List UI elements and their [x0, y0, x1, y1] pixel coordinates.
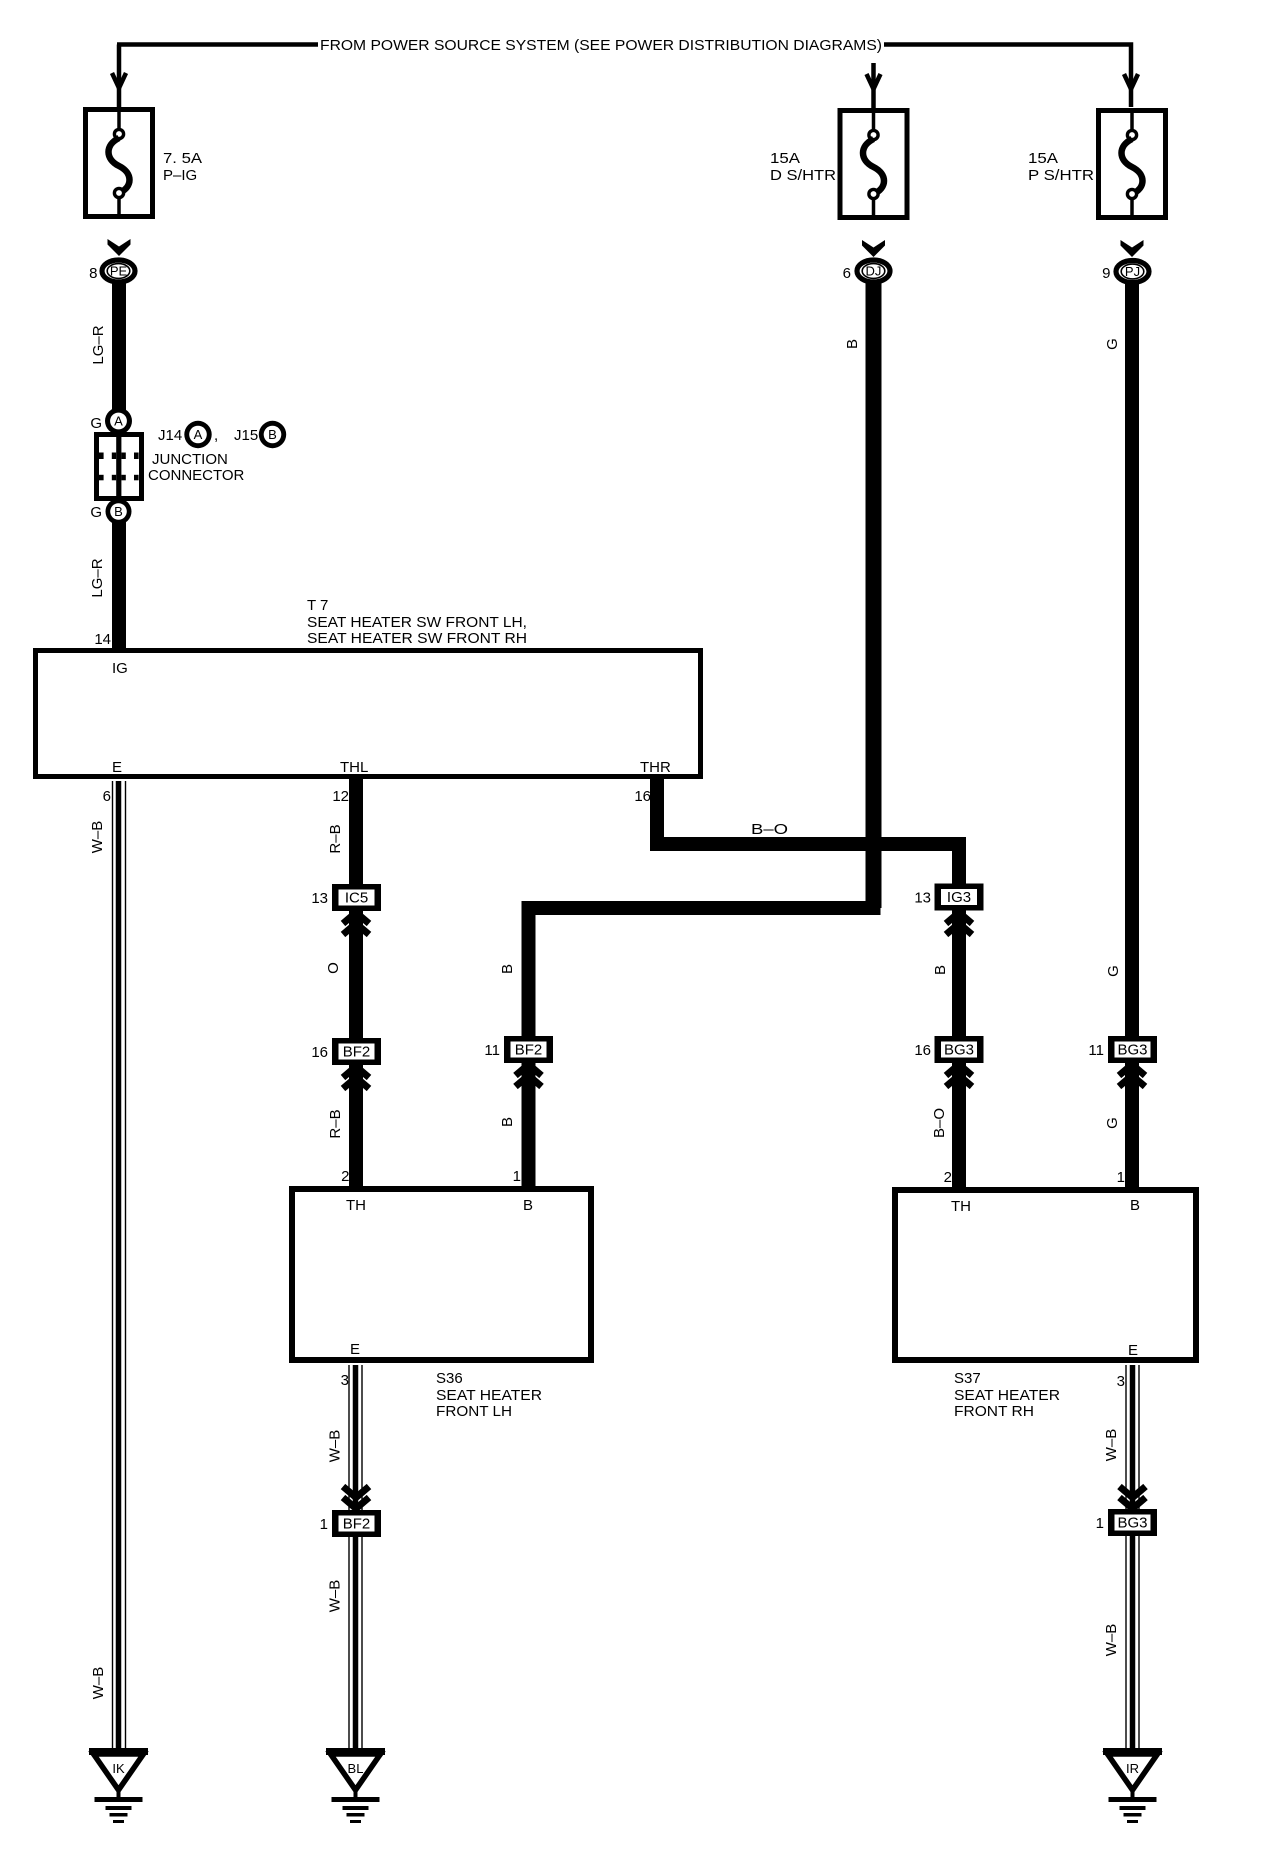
svg-text:BG3: BG3 — [1117, 1042, 1147, 1059]
arrow into fuse P S/HTR — [1124, 74, 1138, 89]
svg-text:W–B: W–B — [327, 1430, 344, 1463]
svg-text:PJ: PJ — [1125, 264, 1140, 279]
junction arrow below BG3 11 — [1119, 1065, 1145, 1087]
node JUNCTION CONNECTOR label — [148, 451, 245, 484]
svg-text:BG3: BG3 — [1117, 1515, 1147, 1532]
wire: top power feed right segment with corner at x1131 — [884, 45, 1131, 108]
node J15 B — [214, 421, 286, 448]
svg-text:R–B: R–B — [327, 1109, 344, 1138]
svg-text:6: 6 — [843, 265, 851, 282]
connector 13 IG3 — [914, 884, 983, 911]
wire LG-R from junction connector B to T7 pin 14 — [112, 522, 126, 650]
junction arrow below BF2 16 — [343, 1067, 369, 1089]
svg-text:FRONT RH: FRONT RH — [954, 1403, 1034, 1420]
arrow into fuse D S/HTR — [867, 74, 881, 89]
svg-text:1: 1 — [513, 1168, 521, 1185]
svg-text:W–B: W–B — [327, 1580, 344, 1613]
svg-text:9: 9 — [1102, 265, 1110, 282]
connector 6 DJ — [843, 260, 890, 282]
svg-text:FRONT LH: FRONT LH — [436, 1403, 512, 1420]
wire from DJ corner to BF2 11 — [522, 901, 881, 915]
wire: top power feed left segment with corner at x119 — [117, 45, 318, 108]
wire B from IG3 to BG3 16 — [952, 909, 966, 1038]
svg-text:E: E — [350, 1341, 360, 1358]
svg-text:16: 16 — [311, 1044, 328, 1061]
svg-text:1: 1 — [1096, 1515, 1104, 1532]
svg-text:SEAT HEATER: SEAT HEATER — [436, 1387, 542, 1404]
fuse 15A P S/HTR — [1099, 108, 1166, 220]
wire R-B from BF2 16 to S36 TH — [349, 1063, 363, 1188]
svg-text:BG3: BG3 — [944, 1042, 974, 1059]
wire O from IC5 to BF2 16 — [349, 909, 363, 1040]
arrow below fuse P S/HTR — [1121, 240, 1144, 257]
svg-text:15A: 15A — [1028, 150, 1058, 167]
svg-text:8: 8 — [89, 265, 97, 282]
svg-text:3: 3 — [1117, 1373, 1125, 1390]
wire W-B from S37 E to ground IR — [1103, 1365, 1139, 1748]
wire W-B from T7 E pin to ground IK — [89, 781, 126, 1748]
junction arrow above BG3 1 — [1120, 1487, 1146, 1509]
svg-text:12: 12 — [332, 788, 349, 805]
svg-text:IC5: IC5 — [345, 890, 368, 907]
junction connector terminal A — [90, 408, 132, 435]
svg-text:14: 14 — [94, 631, 111, 648]
svg-text:W–B: W–B — [1103, 1624, 1120, 1657]
svg-text:W–B: W–B — [90, 1667, 107, 1700]
svg-text:15A: 15A — [770, 150, 800, 167]
svg-text:B: B — [932, 965, 949, 975]
fuse 7.5A P-IG — [86, 107, 153, 219]
svg-text:A: A — [194, 427, 203, 442]
heater S37 SEAT HEATER FRONT RH — [895, 1190, 1196, 1420]
svg-text:SEAT HEATER SW FRONT LH,: SEAT HEATER SW FRONT LH, — [307, 614, 527, 631]
svg-text:S37: S37 — [954, 1370, 981, 1387]
svg-text:E: E — [112, 759, 122, 776]
svg-text:B: B — [523, 1197, 533, 1214]
junction connector terminal B — [90, 499, 131, 525]
svg-text:DJ: DJ — [866, 264, 882, 279]
arrow below fuse D S/HTR — [862, 240, 885, 257]
svg-text:FROM POWER SOURCE SYSTEM (SEE: FROM POWER SOURCE SYSTEM (SEE POWER DIST… — [320, 37, 882, 54]
junction arrow below IC5 — [343, 913, 369, 935]
svg-text:LG–R: LG–R — [90, 325, 107, 364]
svg-text:1: 1 — [320, 1516, 328, 1533]
svg-text:B: B — [499, 964, 516, 974]
svg-text:W–B: W–B — [89, 821, 106, 854]
connector 11 BG3 — [1088, 1036, 1157, 1063]
svg-text:13: 13 — [311, 890, 328, 907]
svg-text:IG3: IG3 — [947, 889, 971, 906]
svg-text:LG–R: LG–R — [89, 558, 106, 597]
svg-text:BF2: BF2 — [343, 1516, 371, 1533]
wire G from BG3 11 to S37 B — [1125, 1061, 1139, 1188]
svg-text:T 7: T 7 — [307, 597, 328, 614]
ground IR — [1103, 1748, 1162, 1823]
wire G from PJ down to BG3 — [1125, 283, 1139, 1038]
arrow into fuse P-IG — [112, 73, 126, 88]
wire: drop to fuse D S/HTR — [871, 63, 876, 108]
svg-text:7. 5A: 7. 5A — [163, 150, 202, 167]
arrow below fuse P-IG — [108, 239, 131, 256]
wire B-O from THR pin 16 — [650, 777, 664, 851]
ground BL — [326, 1748, 385, 1823]
svg-text:B: B — [844, 339, 861, 349]
svg-text:BL: BL — [348, 1761, 364, 1776]
ground IK — [89, 1748, 148, 1823]
svg-text:B–O: B–O — [751, 821, 788, 838]
svg-text:,: , — [214, 427, 218, 444]
svg-text:J15: J15 — [234, 427, 258, 444]
svg-text:TH: TH — [951, 1198, 971, 1215]
svg-text:11: 11 — [1088, 1042, 1104, 1059]
wire W-B from S36 E to ground BL — [327, 1365, 363, 1748]
svg-text:CONNECTOR: CONNECTOR — [148, 467, 245, 484]
svg-text:SEAT HEATER SW FRONT RH: SEAT HEATER SW FRONT RH — [307, 630, 527, 647]
switch T7 SEAT HEATER SW FRONT LH / RH — [36, 597, 701, 777]
svg-text:PE: PE — [110, 264, 128, 279]
svg-text:SEAT HEATER: SEAT HEATER — [954, 1387, 1060, 1404]
svg-text:S36: S36 — [436, 1370, 463, 1387]
svg-text:JUNCTION: JUNCTION — [152, 451, 228, 468]
fuse 15A D S/HTR — [840, 108, 907, 220]
svg-text:B–O: B–O — [931, 1108, 948, 1138]
svg-text:16: 16 — [634, 788, 651, 805]
svg-text:O: O — [325, 962, 342, 974]
svg-text:J14: J14 — [158, 427, 182, 444]
wire R-B from THL pin 12 to IC5 — [349, 777, 363, 886]
svg-text:13: 13 — [914, 890, 931, 907]
svg-text:P S/HTR: P S/HTR — [1028, 167, 1094, 184]
svg-text:IR: IR — [1126, 1761, 1139, 1776]
wire LG-R from PE to junction connector A — [112, 283, 126, 410]
svg-text:R–B: R–B — [327, 824, 344, 853]
svg-text:THL: THL — [340, 759, 368, 776]
svg-text:P–IG: P–IG — [163, 167, 197, 184]
svg-text:B: B — [114, 504, 123, 519]
svg-text:E: E — [1128, 1342, 1138, 1359]
svg-text:3: 3 — [341, 1372, 349, 1389]
svg-text:G: G — [1105, 965, 1122, 977]
svg-text:11: 11 — [484, 1042, 500, 1059]
svg-text:2: 2 — [944, 1169, 952, 1186]
svg-text:B: B — [1130, 1197, 1140, 1214]
svg-text:1: 1 — [1117, 1169, 1125, 1186]
heater S36 SEAT HEATER FRONT LH — [292, 1189, 591, 1420]
connector 8 PE — [89, 260, 135, 282]
svg-text:G: G — [90, 504, 102, 521]
connector 1 BG3 — [1096, 1509, 1157, 1536]
svg-text:G: G — [90, 415, 102, 432]
svg-text:A: A — [114, 414, 123, 429]
svg-text:6: 6 — [103, 788, 111, 805]
junction arrow below BG3 16 — [946, 1065, 972, 1087]
svg-text:IG: IG — [112, 660, 128, 677]
junction arrow below BF2 11 — [516, 1065, 542, 1087]
connector 16 BF2 — [311, 1038, 381, 1065]
connector 1 BF2 — [320, 1510, 381, 1537]
svg-text:TH: TH — [346, 1197, 366, 1214]
svg-text:B: B — [499, 1117, 516, 1127]
svg-text:G: G — [1104, 338, 1121, 350]
wire B-O from BG3 16 to S37 TH — [952, 1061, 966, 1188]
svg-text:BF2: BF2 — [343, 1044, 371, 1061]
connector 13 IC5 — [311, 884, 381, 911]
svg-text:BF2: BF2 — [515, 1042, 543, 1059]
wire B from BF2 11 to S36 B — [522, 1061, 536, 1188]
svg-text:G: G — [1104, 1117, 1121, 1129]
svg-text:IK: IK — [112, 1761, 125, 1776]
connector 11 BF2 — [484, 1036, 553, 1063]
connector 16 BG3 — [914, 1036, 983, 1063]
svg-text:B: B — [268, 427, 277, 442]
svg-text:D S/HTR: D S/HTR — [770, 167, 836, 184]
svg-text:W–B: W–B — [1103, 1429, 1120, 1462]
svg-text:16: 16 — [914, 1042, 931, 1059]
wire B from DJ down — [866, 283, 882, 908]
svg-text:THR: THR — [640, 759, 671, 776]
junction arrow above BF2 1 — [343, 1487, 369, 1509]
svg-text:2: 2 — [341, 1168, 349, 1185]
junction arrow below IG3 — [946, 913, 972, 935]
connector 9 PJ — [1102, 261, 1149, 283]
node J14 A — [158, 421, 212, 448]
junction connector body — [97, 433, 142, 500]
